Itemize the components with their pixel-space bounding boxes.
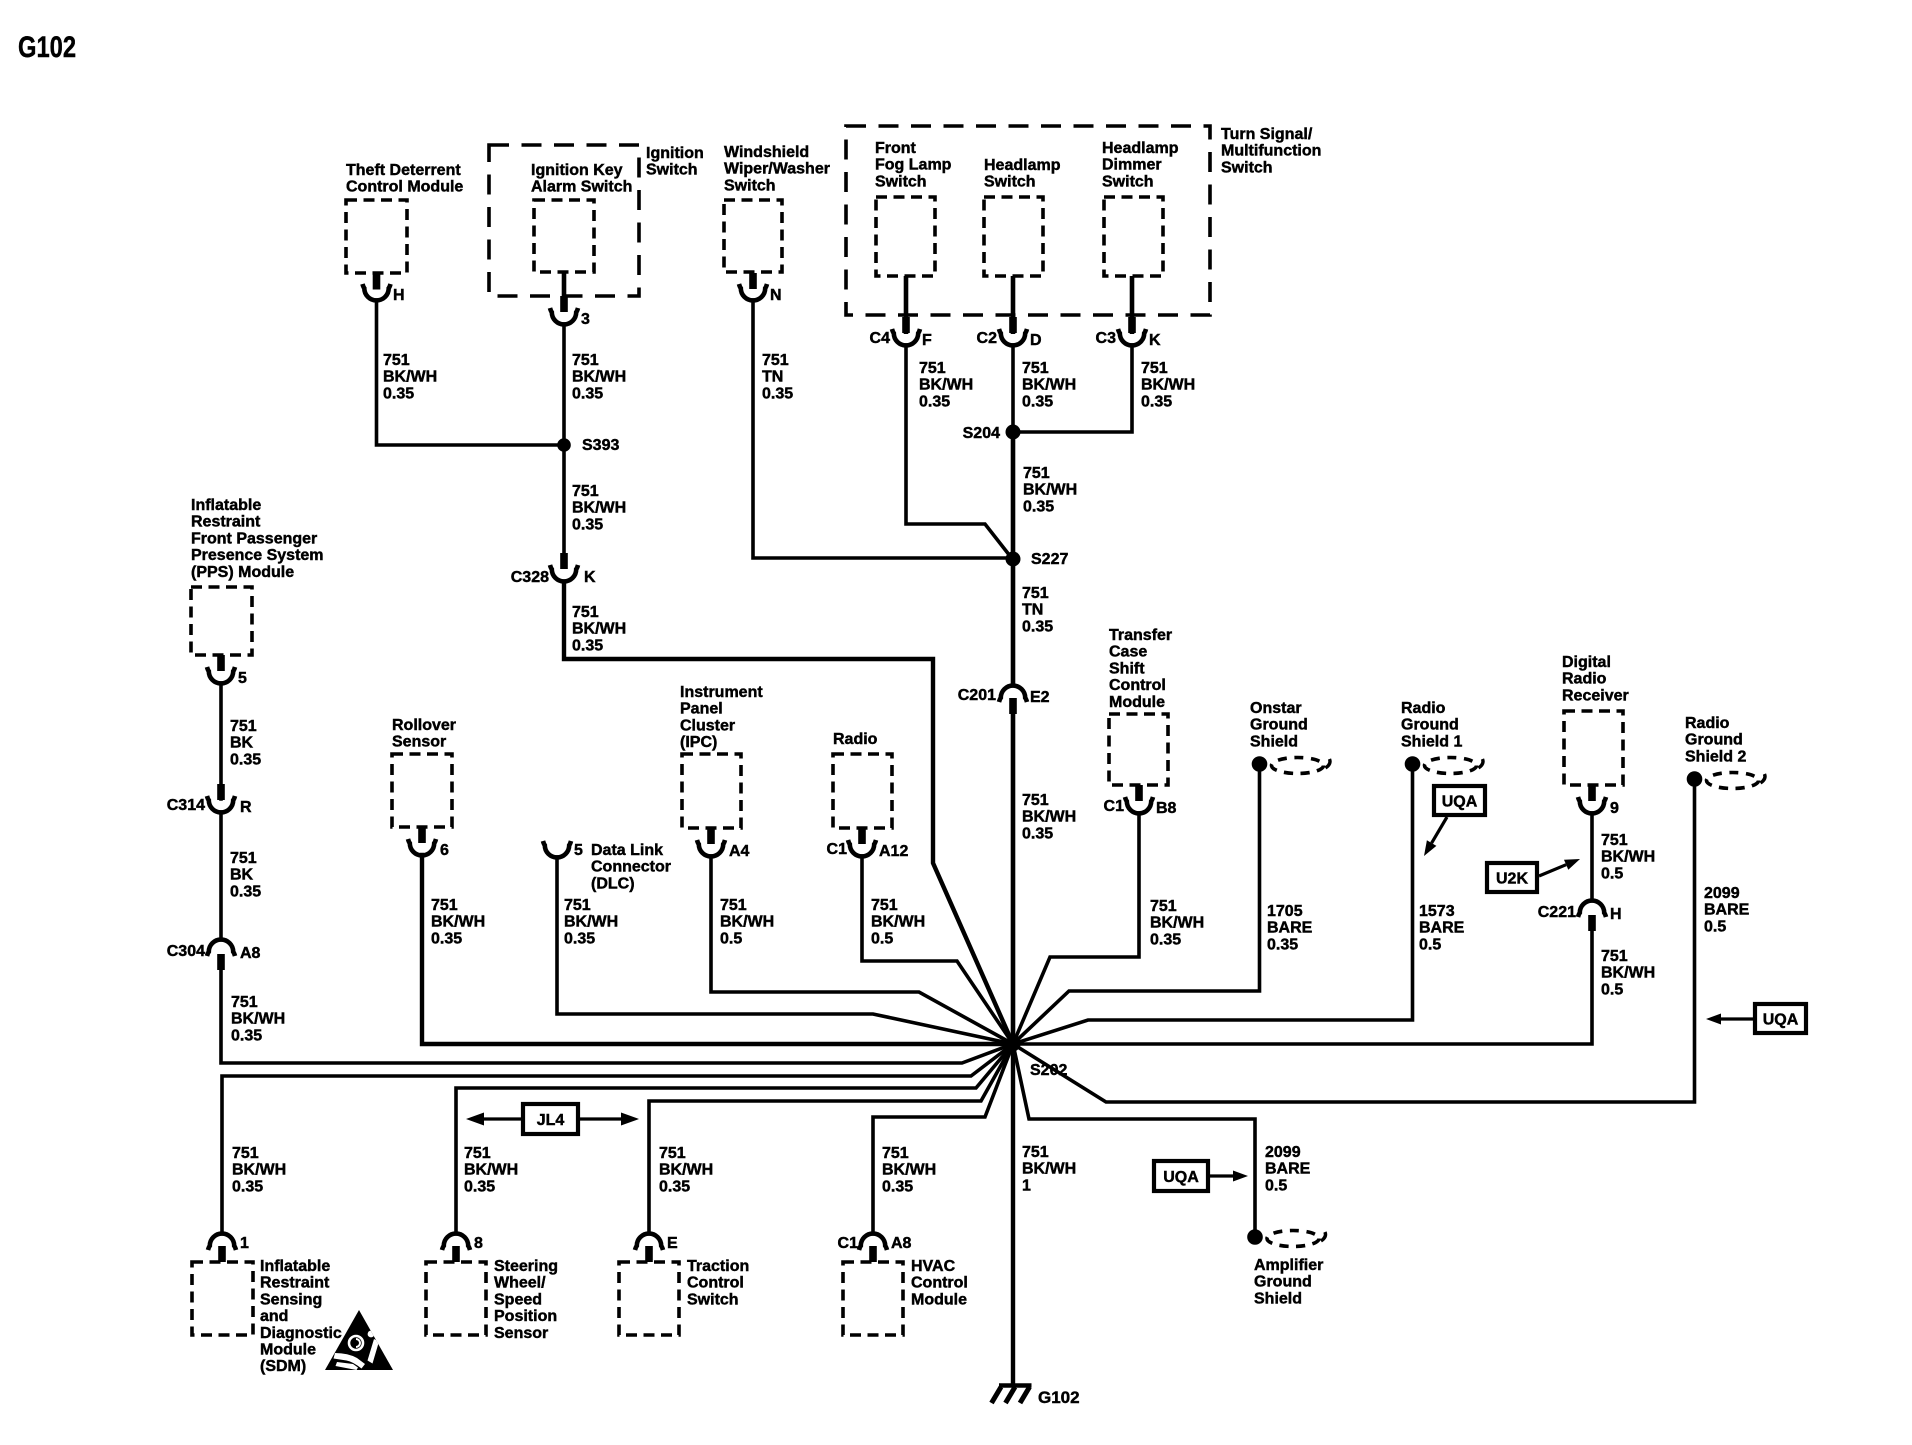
- module PPS: [191, 587, 252, 655]
- svg-text:C314: C314: [167, 797, 205, 814]
- svg-text:UQA: UQA: [1163, 1169, 1199, 1186]
- connector C328 K: [550, 553, 578, 581]
- svg-text:H: H: [393, 287, 405, 304]
- svg-text:C221: C221: [1538, 904, 1576, 921]
- module IPC: [682, 754, 741, 828]
- connector Radio C1 pin A12: [848, 828, 876, 856]
- svg-text:B8: B8: [1156, 800, 1177, 817]
- module HVAC Control Module: [843, 1262, 903, 1335]
- connector C2 pin D: [999, 276, 1027, 345]
- svg-text:C328: C328: [511, 569, 549, 586]
- wire 751 BK/WH from S202 to traction switch: [649, 1044, 1013, 1232]
- svg-text:1: 1: [240, 1235, 249, 1252]
- svg-text:6: 6: [440, 842, 449, 859]
- svg-text:C201: C201: [958, 687, 996, 704]
- switch Headlamp Switch: [984, 197, 1043, 276]
- svg-text:Radio: Radio: [833, 731, 878, 748]
- switch Windshield Wiper/Washer Switch: [724, 200, 782, 272]
- wire 751 BK/WH from DLC to S202: [557, 857, 1013, 1044]
- svg-text:U2K: U2K: [1496, 871, 1528, 888]
- lead from Ignition Key Alarm Switch: [562, 272, 567, 300]
- connector pin 6: [408, 827, 436, 855]
- wire 751 BK/WH from C4-F to S227: [906, 345, 1010, 556]
- connector traction pin E: [635, 1234, 663, 1262]
- splice S393: [557, 438, 571, 452]
- wire 751 BK/WH from A4 to S202: [711, 856, 1013, 1044]
- wire S393 to C328: [562, 450, 566, 556]
- module Inflatable Restraint SDM: [192, 1262, 253, 1335]
- wire 751 BK/WH from C3-K to S204: [1020, 345, 1132, 432]
- connector C4 pin F: [892, 276, 920, 345]
- svg-text:R: R: [240, 799, 252, 816]
- wire 751 BK/WH from pin 3 to S393: [562, 324, 566, 445]
- connector pin A4: [697, 828, 725, 856]
- RPO tag UQA (2): [1755, 1004, 1806, 1033]
- module Radio: [833, 754, 892, 828]
- svg-text:8: 8: [474, 1235, 483, 1252]
- wire 751 BK from C314 to C304: [219, 812, 223, 938]
- wire 1573 BARE from Radio shield 1 to S202: [1013, 764, 1413, 1044]
- connector pin 9: [1578, 785, 1606, 813]
- svg-text:K: K: [584, 569, 596, 586]
- svg-text:E2: E2: [1030, 689, 1050, 706]
- connector pin N: [739, 273, 767, 300]
- svg-text:C304: C304: [167, 943, 205, 960]
- module Transfer Case Shift Control Module: [1109, 714, 1168, 785]
- connector C304 A8: [207, 940, 235, 970]
- connector C201 pin E2: [999, 686, 1027, 714]
- module Digital Radio Receiver: [1564, 711, 1623, 785]
- svg-text:A4: A4: [729, 843, 750, 860]
- svg-text:9: 9: [1610, 800, 1619, 817]
- svg-text:S204: S204: [963, 425, 1000, 442]
- svg-text:Ignition KeyAlarm Switch: Ignition KeyAlarm Switch: [531, 162, 632, 196]
- svg-text:UQA: UQA: [1442, 794, 1478, 811]
- svg-text:C1: C1: [1104, 798, 1125, 815]
- switch Ignition Key Alarm Switch: [534, 200, 594, 272]
- connector pin 3: [550, 296, 578, 324]
- sensor Steering Wheel/Speed Position Sensor: [426, 1262, 486, 1335]
- splice S204: [1006, 425, 1021, 440]
- wire 751 BK/WH from C304 to S202: [221, 968, 1013, 1063]
- arrow UQA to 2099 wire: [1706, 1014, 1754, 1025]
- svg-text:A8: A8: [240, 945, 261, 962]
- svg-text:C1: C1: [838, 1235, 859, 1252]
- svg-text:N: N: [770, 287, 782, 304]
- wire 751 BK/WH from C221 to S202: [1013, 929, 1592, 1044]
- RPO tag U2K: [1487, 863, 1537, 892]
- wire 751 BK/WH from H to S393: [377, 300, 565, 445]
- connector C3 pin K: [1118, 276, 1146, 345]
- RPO tag UQA (3): [1154, 1161, 1208, 1191]
- ground shield symbol Onstar: [1252, 756, 1330, 773]
- splice S227: [1006, 552, 1021, 567]
- splice S202: [1006, 1037, 1021, 1052]
- connector DLC pin 5: [543, 841, 571, 857]
- switch Traction Control Switch: [619, 1262, 679, 1335]
- connector Transfer C1 pin B8: [1125, 785, 1153, 813]
- ground symbol G102: [992, 1386, 1032, 1404]
- svg-text:5: 5: [238, 670, 247, 687]
- wire 751 BK/WH from B8 to S202: [1013, 813, 1139, 1044]
- wire 2099 BARE from S202 to amplifier shield: [1013, 1044, 1255, 1231]
- svg-text:C1: C1: [827, 841, 848, 858]
- svg-text:K: K: [1149, 332, 1161, 349]
- wire C201 to S202: [1011, 712, 1016, 1044]
- arrow UQA to 1573 wire: [1424, 817, 1447, 856]
- svg-text:H: H: [1610, 906, 1622, 923]
- wire 751 BK/WH from S202 to SDM: [222, 1044, 1013, 1232]
- svg-text:C3: C3: [1096, 330, 1117, 347]
- wire S204 to S227: [1011, 432, 1016, 559]
- RPO tag JL4: [523, 1104, 578, 1134]
- svg-text:5: 5: [574, 842, 583, 859]
- module Theft Deterrent Control Module: [346, 200, 407, 273]
- ground shield symbol Radio 1: [1405, 756, 1483, 773]
- wire 751 BK/WH from radio A12 to S202: [862, 856, 1013, 1044]
- wire 751 BK/WH from C328 to S202: [564, 582, 1013, 1044]
- wire 751 BK/WH from 9 to C221: [1590, 813, 1594, 899]
- connector pin H: [363, 274, 391, 301]
- svg-text:C2: C2: [977, 330, 998, 347]
- wire 751 BK/WH from S202 to steering sensor: [456, 1044, 1013, 1232]
- wire 751 BK/WH from S202 to HVAC: [873, 1044, 1013, 1232]
- svg-text:A8: A8: [891, 1235, 912, 1252]
- ground shield symbol Radio 2: [1687, 771, 1765, 788]
- svg-text:S227: S227: [1031, 551, 1068, 568]
- connector C221 H: [1578, 901, 1606, 931]
- svg-text:S202: S202: [1030, 1062, 1067, 1079]
- svg-text:F: F: [922, 332, 932, 349]
- connector C314 R: [207, 784, 235, 812]
- wire S227 to C201: [1011, 559, 1016, 684]
- connector steering pin 8: [442, 1234, 470, 1262]
- airbag warning triangle: [325, 1310, 393, 1370]
- wire 751 TN from N to S227: [753, 300, 1006, 558]
- wire 751 BK/WH 1 from S202 to G102: [1011, 1044, 1015, 1385]
- svg-text:G102: G102: [18, 31, 76, 64]
- arrow UQA to amplifier wire: [1210, 1171, 1248, 1182]
- arrow JL4 right: [550, 1113, 639, 1126]
- svg-text:A12: A12: [879, 843, 908, 860]
- svg-text:UQA: UQA: [1763, 1012, 1799, 1029]
- sensor Rollover Sensor: [392, 754, 452, 827]
- wire 2099 BARE from Radio shield 2 to S202: [1013, 779, 1695, 1102]
- svg-text:E: E: [667, 1235, 678, 1252]
- svg-text:G102: G102: [1038, 1388, 1080, 1407]
- wire 1705 BARE from Onstar shield to S202: [1013, 764, 1260, 1044]
- connector pin 5: [207, 655, 235, 683]
- svg-text:JL4: JL4: [537, 1112, 565, 1129]
- switch Headlamp Dimmer Switch: [1104, 197, 1163, 276]
- switch Ignition Switch (outer): [489, 145, 639, 296]
- wire 751 BK/WH from C2-D to S204: [1011, 345, 1015, 432]
- svg-text:S393: S393: [582, 437, 619, 454]
- arrow U2K to wire 9: [1539, 859, 1580, 876]
- svg-text:3: 3: [581, 311, 590, 328]
- switch Turn Signal/Multifunction Switch (outer): [846, 126, 1210, 315]
- connector SDM pin 1: [208, 1234, 236, 1262]
- svg-text:Theft DeterrentControl Module: Theft DeterrentControl Module: [346, 162, 463, 196]
- wire 751 BK/WH from 6 to S202: [422, 855, 1013, 1044]
- ground shield symbol Amplifier: [1247, 1229, 1325, 1246]
- svg-text:D: D: [1030, 332, 1042, 349]
- svg-text:C4: C4: [870, 330, 891, 347]
- switch Front Fog Lamp Switch: [876, 197, 935, 276]
- wire 751 BK from 5 to C314: [219, 683, 223, 799]
- connector HVAC C1 pin A8: [859, 1234, 887, 1262]
- RPO tag UQA (1): [1434, 786, 1485, 815]
- svg-text:IgnitionSwitch: IgnitionSwitch: [646, 145, 704, 179]
- arrow JL4 left: [466, 1113, 550, 1126]
